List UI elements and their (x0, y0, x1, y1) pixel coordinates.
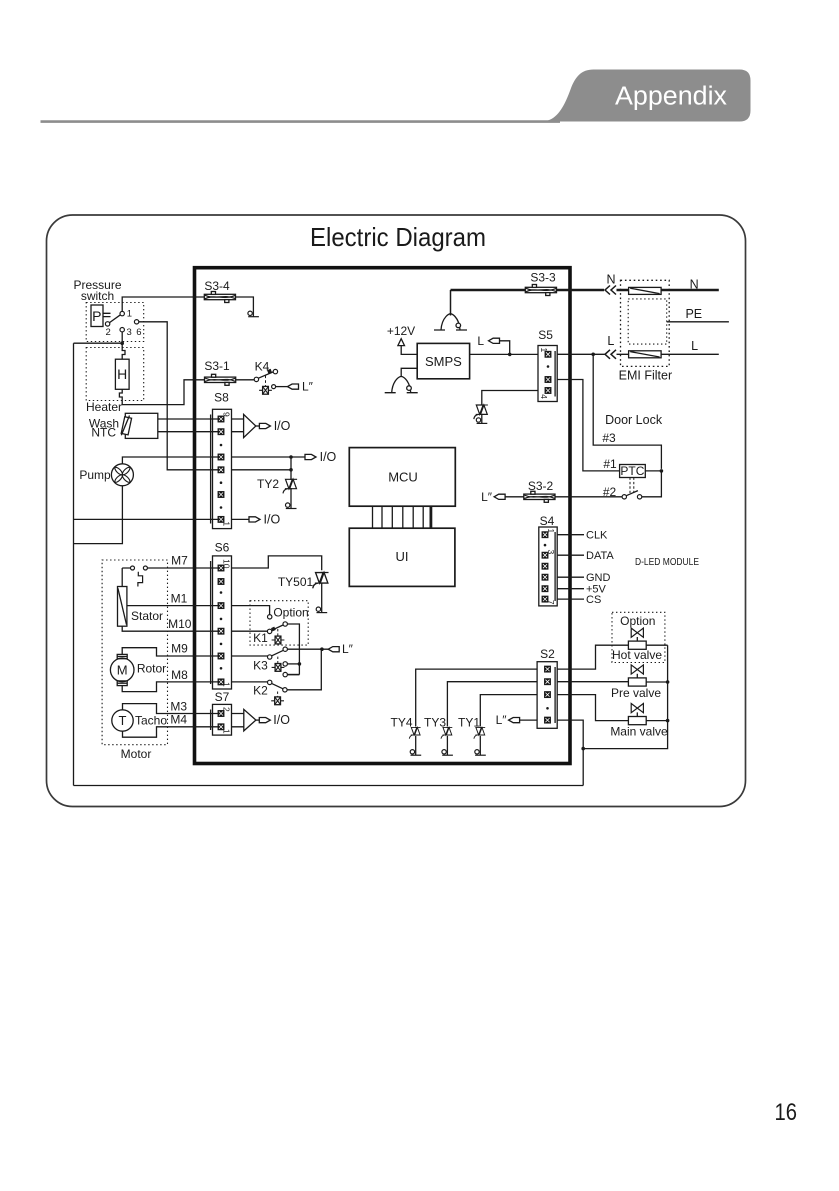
svg-text:S5: S5 (538, 328, 553, 342)
triac at S5 (474, 405, 488, 419)
svg-text:TY1: TY1 (458, 715, 480, 729)
pre valve (628, 665, 646, 686)
wire S6 pin10 to TY501 (232, 556, 322, 570)
wire NTC to S8 pin (158, 431, 218, 433)
svg-text:M9: M9 (171, 641, 188, 655)
pin S8-8 (218, 429, 224, 435)
triac TY501 (313, 573, 329, 589)
svg-text:I/O: I/O (273, 713, 290, 727)
svg-text:3: 3 (127, 327, 132, 338)
svg-text:S6: S6 (215, 540, 230, 554)
svg-text:T: T (119, 713, 127, 728)
svg-text:Main valve: Main valve (610, 725, 668, 739)
wire NTC to S8 pin (158, 418, 218, 420)
svg-text:2: 2 (106, 327, 111, 338)
svg-text:S3-2: S3-2 (528, 479, 554, 493)
PTC box (620, 465, 646, 478)
svg-text:Stator: Stator (131, 609, 163, 623)
node row469.8 (289, 468, 293, 472)
wire pump bottom to left rail (74, 486, 123, 544)
wire N corner to clamp (450, 290, 452, 316)
wire S2 pin3 to main valve (557, 695, 628, 721)
wire main valve to rail (646, 720, 667, 722)
terminal L'' (door lock) (494, 494, 505, 499)
svg-text:Motor: Motor (121, 747, 152, 761)
connector S7 (215, 690, 230, 704)
terminal L'' (S2) (509, 718, 520, 723)
svg-text:S3-4: S3-4 (204, 279, 230, 293)
svg-text:PE: PE (685, 307, 702, 321)
svg-text:K3: K3 (253, 658, 268, 672)
wire valve return rail (583, 645, 667, 748)
svg-text:S7: S7 (215, 690, 230, 704)
svg-text:M: M (117, 663, 128, 678)
pin S5-4 (545, 388, 551, 394)
svg-text:Electric Diagram: Electric Diagram (310, 222, 486, 252)
chevrons N (605, 286, 616, 295)
wire #3 from L node to PTC right (593, 354, 661, 469)
node door lock branch (591, 353, 595, 357)
pressure switch arm (110, 315, 121, 323)
wire hot valve to rail (646, 644, 667, 646)
wire triac to terminal (481, 414, 483, 423)
relay contact K4 (254, 377, 258, 381)
node K1/K3 (298, 662, 302, 666)
terminal below TY4 (410, 750, 421, 756)
wire S3-2 to L'' (506, 496, 524, 498)
svg-text:L″: L″ (496, 713, 508, 727)
wire S2 pin1 to TY4 (416, 669, 537, 726)
pin S2-2 (545, 679, 551, 685)
wire contact3 down to junction (121, 332, 123, 343)
pressure switch contact 2 (105, 322, 109, 326)
door lock label (605, 413, 663, 427)
connector S3-2 (524, 491, 555, 502)
terminal below TY2 (286, 503, 297, 509)
terminal below TY1 (475, 750, 486, 756)
svg-text:L″: L″ (342, 642, 354, 656)
relay K2 (232, 681, 268, 683)
svg-text:L″: L″ (481, 490, 493, 504)
node valve return (581, 747, 585, 751)
svg-text:Heater: Heater (86, 400, 122, 414)
wire M10 stator bottom to S6 (122, 626, 218, 631)
connector S2 (540, 647, 555, 661)
svg-text:6: 6 (136, 327, 141, 338)
svg-text:S4: S4 (540, 514, 555, 528)
connector S3-4 (204, 292, 235, 303)
svg-text:DATA: DATA (586, 550, 614, 562)
relay coil K3 (272, 664, 285, 672)
pressure switch contact 3 (120, 328, 124, 332)
terminal below TY501 (316, 607, 327, 613)
svg-text:Hot valve: Hot valve (612, 648, 662, 662)
+12V label (387, 324, 415, 338)
wire S8 row519.4 to I/O (232, 518, 250, 520)
main board bold box (195, 268, 571, 764)
pin S8-3 (218, 492, 224, 498)
svg-text:+12V: +12V (387, 324, 415, 338)
left rail (73, 343, 75, 785)
wire contact1 to S3-4 (122, 297, 204, 311)
terminal I/O (row 457) (305, 454, 316, 459)
pin S2-5 (545, 717, 551, 723)
relay coil K4 (259, 386, 272, 394)
pin S6-7 (218, 603, 224, 609)
main valve (628, 704, 646, 725)
wire S5 pin4 to triac (482, 391, 538, 406)
pressure switch contact 1 (120, 311, 124, 315)
svg-text:TY501: TY501 (278, 575, 314, 589)
svg-text:S2: S2 (540, 647, 555, 661)
EMI filter inner dotted box (628, 299, 667, 344)
svg-text:16: 16 (775, 1099, 798, 1126)
svg-text:4: 4 (539, 394, 549, 399)
pin S5-1 (545, 352, 551, 358)
pressure switch contact 6 (134, 320, 138, 324)
op-amp S7 I/O buffer (232, 714, 244, 727)
pin S8-9 (218, 416, 224, 422)
pin S2-1 (545, 666, 551, 672)
wire M9 rotor top to S6 (122, 648, 218, 656)
wire N out (thick) (617, 289, 719, 292)
EMI choke L (629, 351, 662, 358)
pin S6-9 (218, 579, 224, 585)
op-amp S8 I/O buffer (232, 419, 244, 432)
wire M7 down to stator (121, 568, 123, 587)
svg-text:1: 1 (127, 308, 132, 319)
svg-text:EMI Filter: EMI Filter (619, 368, 672, 382)
tachometer (112, 710, 133, 731)
svg-text:MCU: MCU (388, 469, 418, 484)
svg-text:switch: switch (81, 289, 114, 303)
svg-text:#3: #3 (602, 431, 616, 445)
MCU box (349, 448, 455, 507)
pin S4-6 +5V (542, 586, 548, 592)
header rule (41, 120, 561, 123)
pin S6-10 (218, 565, 224, 571)
wire GND (557, 576, 584, 578)
pin S8-1 (218, 517, 224, 523)
svg-text:TY2: TY2 (257, 477, 279, 491)
triac TY2 (283, 479, 297, 493)
terminal L'' (K4) (288, 384, 299, 389)
connector S3-3 (525, 285, 556, 296)
svg-text:CLK: CLK (586, 530, 608, 542)
svg-text:I/O: I/O (320, 450, 337, 464)
wire S3-1 to K4 (236, 379, 255, 381)
terminal L'' (relays) (328, 647, 339, 652)
triac TY4 (409, 727, 420, 738)
wire M3 tacho top to S7 (123, 704, 219, 714)
wire K2 contact to L'' node (287, 651, 321, 690)
svg-text:I/O: I/O (264, 512, 281, 526)
wire L'' to S2 pin5 (520, 719, 538, 721)
node pre valve rail (666, 680, 670, 684)
relay K1 (232, 630, 268, 632)
wire M7 row (122, 567, 218, 569)
relay K3 (232, 655, 268, 657)
thermal contact right (143, 566, 147, 570)
diagram panel frame (47, 215, 746, 807)
pin S4-1 CLK (542, 532, 548, 538)
pin S7-2 (218, 711, 224, 717)
wire L to node (500, 341, 510, 355)
svg-text:M10: M10 (168, 617, 192, 631)
pin S4-4 (542, 563, 548, 569)
svg-text:K1: K1 (253, 631, 268, 645)
svg-text:PTC: PTC (620, 464, 644, 478)
svg-text:H: H (117, 366, 127, 382)
K3 throw contacts (283, 662, 287, 666)
wire S2 pin2 to TY3 (447, 682, 537, 727)
header tab "Appendix" (548, 70, 751, 122)
wire CLK (557, 534, 584, 536)
wire S5 pin3 to PTC (557, 380, 619, 471)
ground clamp (SMPS) (385, 377, 418, 393)
svg-text:P: P (92, 308, 101, 324)
wire pump top to I/O row (122, 457, 218, 464)
svg-text:Pre valve: Pre valve (611, 686, 661, 700)
brush top (117, 654, 127, 658)
pin S4-7 CS (542, 596, 548, 602)
UI box (349, 528, 455, 586)
wire S8 row469.8 to TY2 node (232, 469, 292, 471)
pin S2-3 (545, 692, 551, 698)
pump (79, 468, 111, 482)
wire +5V (557, 588, 584, 590)
wire PE (667, 321, 729, 323)
pin S6-1 (218, 679, 224, 685)
svg-text:M1: M1 (171, 592, 188, 606)
svg-text:TY3: TY3 (424, 715, 446, 729)
svg-text:S3-3: S3-3 (530, 270, 556, 284)
pin S7-1 (218, 724, 224, 730)
svg-text:K4: K4 (255, 360, 270, 374)
wire M4 tacho bottom to S7 (123, 727, 219, 737)
svg-text:M4: M4 (170, 712, 187, 726)
node heater junction (120, 341, 124, 345)
wire S3-4 to terminal (236, 297, 254, 317)
wire pre valve to rail (646, 681, 667, 683)
terminal I/O (NTC) (259, 423, 270, 428)
svg-text:SMPS: SMPS (425, 354, 462, 369)
option open terminal (268, 615, 272, 619)
wire left rail to S8 pin1 row (74, 518, 219, 520)
svg-text:S3-1: S3-1 (204, 359, 230, 373)
motor rotor (110, 658, 134, 682)
pin S6-5 (218, 628, 224, 634)
wire S6 pin7 to option terminal (232, 606, 270, 615)
motor dotted box (102, 560, 167, 745)
triac TY3 (441, 727, 452, 738)
connector S4 (540, 514, 555, 528)
wire CS (557, 598, 584, 600)
D-LED MODULE label (635, 557, 699, 568)
wire S2 pin2 to pre valve (557, 681, 628, 683)
pin S4-5 GND (542, 574, 548, 580)
wire S8 row457 to I/O (232, 456, 306, 458)
EMI filter outer dotted box (621, 280, 670, 366)
wire K1 contact down (287, 624, 299, 675)
SMPS box (417, 343, 469, 378)
node L'' (320, 647, 324, 651)
wire node down to switch (642, 471, 662, 497)
relay coil K2 (271, 697, 284, 705)
PTC actuator dashes (630, 478, 634, 494)
svg-text:K2: K2 (253, 683, 268, 697)
svg-text:L″: L″ (302, 380, 314, 394)
triac TY1 (474, 727, 485, 738)
wire K3 contact to L'' node (287, 648, 328, 650)
option dotted box (relays) (250, 601, 308, 645)
wire S2 pin5 to bottom rail (557, 720, 583, 785)
bottom rail (74, 785, 584, 787)
ground clamp (N) (434, 314, 467, 330)
svg-text:N: N (606, 273, 615, 287)
svg-text:TY4: TY4 (390, 715, 412, 729)
option dotted box (hot valve) (612, 612, 665, 662)
terminal below S5 triac (476, 418, 487, 424)
pressure switch dotted box (86, 303, 144, 342)
svg-text:UI: UI (396, 549, 409, 564)
wire heater bottom to S3-1 (119, 380, 204, 405)
svg-text:L: L (477, 334, 484, 348)
svg-text:M7: M7 (171, 553, 188, 567)
heater dotted box (86, 348, 144, 401)
svg-text:#1: #1 (603, 457, 617, 471)
wire S2 pin3 to TY1 (480, 695, 537, 727)
wire M1 stator to S6 (127, 605, 218, 607)
svg-text:S8: S8 (214, 391, 229, 405)
stator winding (118, 587, 127, 627)
wire M8 rotor bottom to S6 (122, 682, 218, 692)
pressure switch P box (91, 305, 103, 327)
wire N (thick) (451, 289, 605, 292)
svg-text:M8: M8 (171, 668, 188, 682)
svg-text:CS: CS (586, 594, 601, 606)
wire contact6 right and down to S8 row (139, 322, 218, 470)
wire switch to S3-2 (555, 496, 622, 498)
terminal below TY3 (442, 750, 453, 756)
pin S8-5 (218, 467, 224, 473)
terminal I/O (row 519) (249, 517, 260, 522)
svg-text:Rotor: Rotor (137, 661, 166, 675)
node TY2 top (289, 455, 293, 459)
pin S4-3 DATA (542, 552, 548, 558)
node main valve rail (666, 719, 670, 723)
svg-text:D-LED MODULE: D-LED MODULE (635, 557, 699, 568)
wire TY501 to terminal (321, 583, 323, 613)
terminal I/O (tacho) (259, 718, 270, 723)
connector S3-1 (205, 374, 236, 385)
svg-text:N: N (690, 278, 699, 292)
connector S8 (214, 391, 229, 405)
EMI choke N (629, 287, 662, 294)
hot valve (628, 628, 646, 649)
thermal contact left (131, 566, 135, 570)
connector S5 (538, 328, 553, 342)
wire K4 coil to L'' (276, 386, 288, 388)
thermal protector step (138, 572, 143, 587)
node L branch (508, 353, 512, 357)
pin S5-3 (545, 377, 551, 383)
terminal L (489, 338, 500, 343)
svg-text:Option: Option (273, 605, 308, 619)
wire TY2 vertical (290, 457, 292, 509)
wire PTC to node (645, 470, 661, 472)
pin S6-3 (218, 653, 224, 659)
svg-text:Door Lock: Door Lock (605, 413, 663, 427)
svg-text:L: L (607, 334, 614, 348)
node PTC right (660, 469, 664, 473)
svg-text:I/O: I/O (274, 419, 291, 433)
chevrons L (605, 350, 616, 359)
pressure switch double link lines (103, 313, 111, 316)
relay coil K1 (272, 636, 285, 644)
wire S2 pin1 to hot valve (557, 645, 628, 669)
svg-text:Option: Option (620, 614, 655, 628)
svg-text:GND: GND (586, 572, 611, 584)
pressure switch label (73, 278, 121, 303)
wire SMPS to S5 (470, 353, 538, 355)
pin S8-6 (218, 454, 224, 460)
wire DATA (557, 554, 584, 556)
terminal below S3-4 (248, 311, 259, 317)
heater H element (115, 359, 129, 389)
svg-text:Appendix: Appendix (615, 82, 727, 110)
thermistor Wash NTC (89, 417, 119, 440)
svg-text:Tacho: Tacho (135, 714, 167, 728)
svg-text:L: L (691, 339, 698, 353)
MCU-UI bus (373, 506, 424, 528)
wire SMPS to ground clamp (401, 368, 417, 376)
wire junction to heater (122, 343, 125, 359)
wire L row (557, 353, 719, 355)
svg-text:NTC: NTC (91, 426, 116, 440)
brush bottom (117, 681, 127, 686)
wire junction to left rail (74, 342, 123, 344)
+12V arrow (398, 339, 405, 346)
connector S6 (215, 540, 230, 554)
door lock switch (622, 495, 626, 499)
svg-text:Pump: Pump (79, 468, 111, 482)
